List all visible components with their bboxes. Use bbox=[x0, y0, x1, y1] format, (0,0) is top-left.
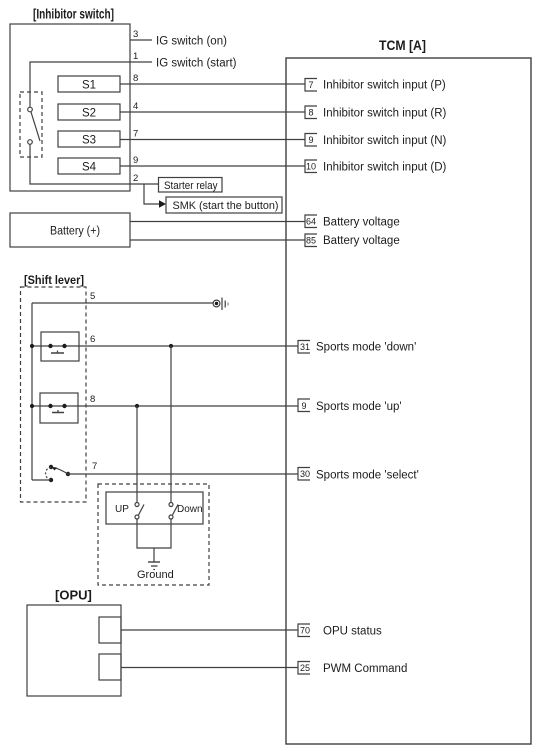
switch S1 box bbox=[58, 76, 120, 92]
svg-text:Sports mode 'down': Sports mode 'down' bbox=[316, 342, 416, 354]
contact dots bbox=[48, 404, 52, 408]
wire S3 to pin 9 bbox=[120, 139, 305, 141]
Down switch contacts bbox=[169, 503, 173, 507]
wire S2 to pin 8 bbox=[120, 111, 305, 113]
wire battery to pin 64 bbox=[130, 221, 305, 223]
starter relay box bbox=[159, 178, 223, 193]
svg-text:[Inhibitor switch]: [Inhibitor switch] bbox=[33, 6, 114, 22]
wire pin 1 (IG switch start) bbox=[30, 62, 152, 107]
wire pin 8b bbox=[32, 405, 298, 407]
svg-text:4: 4 bbox=[133, 101, 138, 112]
switch S2 box bbox=[58, 104, 120, 120]
connector symbol on wire 5 bbox=[213, 300, 220, 307]
svg-text:5: 5 bbox=[90, 291, 95, 302]
svg-text:9: 9 bbox=[302, 401, 307, 411]
pin 30 connector bbox=[298, 468, 310, 481]
OPU sub box 1 bbox=[99, 617, 121, 643]
vertical wire to UP switch bbox=[136, 406, 138, 504]
pin 8 connector bbox=[305, 106, 317, 119]
connector symbol small tick bbox=[227, 303, 229, 306]
svg-text:Battery (+): Battery (+) bbox=[50, 226, 100, 238]
svg-text:Sports mode 'select': Sports mode 'select' bbox=[316, 470, 419, 482]
svg-text:2: 2 bbox=[133, 173, 138, 184]
svg-text:7: 7 bbox=[309, 80, 314, 90]
wire S4 to pin 10 bbox=[120, 165, 305, 167]
svg-text:64: 64 bbox=[306, 217, 316, 227]
svg-text:TCM [A]: TCM [A] bbox=[379, 37, 426, 53]
svg-text:Sports mode 'up': Sports mode 'up' bbox=[316, 401, 402, 413]
junction dot bbox=[30, 344, 34, 348]
wire S1 to pin 7 bbox=[120, 83, 305, 85]
svg-text:7: 7 bbox=[133, 129, 138, 140]
svg-text:31: 31 bbox=[300, 342, 310, 352]
shift lever dashed box bbox=[21, 287, 87, 502]
svg-text:70: 70 bbox=[300, 626, 310, 636]
svg-text:SMK (start the button): SMK (start the button) bbox=[173, 200, 279, 212]
up/down inner box bbox=[106, 492, 203, 524]
svg-text:3: 3 bbox=[133, 29, 138, 40]
svg-text:Battery voltage: Battery voltage bbox=[323, 217, 400, 229]
ground symbol bbox=[148, 561, 160, 563]
svg-text:Inhibitor switch input (D): Inhibitor switch input (D) bbox=[323, 162, 447, 174]
arrowhead into SMK bbox=[159, 200, 166, 208]
svg-text:Ground: Ground bbox=[137, 569, 174, 581]
wire pin 6 bbox=[32, 345, 298, 347]
up/down dashed box bbox=[98, 484, 209, 585]
pin 9 connector bbox=[305, 134, 317, 147]
TCM box bbox=[286, 58, 531, 744]
svg-text:UP: UP bbox=[115, 504, 129, 515]
shift feed vertical wire bbox=[31, 303, 33, 480]
junction dot wire6 to down-switch bbox=[169, 344, 173, 348]
select switch lever bbox=[54, 468, 68, 474]
battery box bbox=[10, 213, 130, 247]
Down switch lever bbox=[173, 505, 179, 516]
UP switch lever bbox=[139, 505, 145, 516]
svg-text:[OPU]: [OPU] bbox=[55, 588, 92, 603]
inhibitor rotary switch dashed box bbox=[20, 92, 42, 157]
svg-text:Inhibitor switch input (R): Inhibitor switch input (R) bbox=[323, 108, 447, 120]
svg-text:[Shift lever]: [Shift lever] bbox=[24, 273, 84, 287]
svg-text:7: 7 bbox=[92, 461, 97, 472]
svg-text:10: 10 bbox=[306, 162, 316, 172]
switch contact bottom bbox=[28, 140, 33, 145]
pin 7 connector bbox=[305, 79, 317, 92]
select switch dashed arc bbox=[46, 467, 51, 480]
wire PWM command bbox=[121, 667, 298, 669]
wire pin 5 bbox=[32, 302, 213, 304]
switch S4 box bbox=[58, 158, 120, 174]
junction dot bbox=[30, 404, 34, 408]
pin 70 connector bbox=[298, 624, 310, 637]
svg-text:8: 8 bbox=[133, 73, 138, 84]
select switch feed bbox=[32, 479, 51, 481]
svg-text:1: 1 bbox=[133, 51, 138, 62]
vertical wire to Down switch bbox=[170, 346, 172, 504]
pin 10 connector bbox=[305, 160, 317, 173]
svg-text:9: 9 bbox=[133, 155, 138, 166]
svg-text:25: 25 bbox=[300, 663, 310, 673]
ground bus wires bbox=[137, 519, 171, 548]
svg-text:IG switch (start): IG switch (start) bbox=[156, 58, 237, 70]
wire OPU status bbox=[121, 629, 298, 631]
pin 64 connector bbox=[305, 215, 317, 228]
UP switch contacts bbox=[135, 503, 139, 507]
pin 9b connector bbox=[298, 399, 310, 412]
svg-text:PWM Command: PWM Command bbox=[323, 663, 407, 675]
svg-text:9: 9 bbox=[309, 135, 314, 145]
junction dot wire8 to up-switch bbox=[135, 404, 139, 408]
switch S3 box bbox=[58, 131, 120, 147]
svg-text:85: 85 bbox=[306, 236, 316, 246]
svg-text:8: 8 bbox=[309, 108, 314, 118]
svg-text:IG switch (on): IG switch (on) bbox=[156, 36, 227, 48]
svg-text:S1: S1 bbox=[82, 80, 96, 92]
wire pin 3 (IG switch on) bbox=[130, 39, 152, 41]
svg-text:Inhibitor switch input (N): Inhibitor switch input (N) bbox=[323, 135, 447, 147]
wire battery to pin 85 bbox=[130, 239, 305, 241]
svg-text:6: 6 bbox=[90, 334, 95, 345]
shift switch (down) box bbox=[41, 332, 79, 361]
OPU box bbox=[27, 605, 121, 696]
SMK box bbox=[166, 197, 282, 213]
svg-text:Starter relay: Starter relay bbox=[164, 180, 218, 192]
svg-text:30: 30 bbox=[300, 469, 310, 479]
switch lever bbox=[31, 112, 40, 141]
svg-text:Battery voltage: Battery voltage bbox=[323, 235, 400, 247]
pin 85 connector bbox=[305, 234, 317, 247]
contact dots bbox=[48, 344, 52, 348]
wire branch to SMK bbox=[144, 184, 159, 204]
svg-text:Inhibitor switch input (P): Inhibitor switch input (P) bbox=[323, 80, 446, 92]
OPU sub box 2 bbox=[99, 654, 121, 680]
switch bridge bbox=[51, 352, 64, 354]
pin 31 connector bbox=[298, 341, 310, 354]
svg-text:OPU status: OPU status bbox=[323, 626, 382, 638]
pin 25 connector bbox=[298, 662, 310, 675]
switch bridge bbox=[52, 412, 64, 414]
svg-text:S4: S4 bbox=[82, 162, 97, 174]
shift switch (up) box bbox=[40, 393, 78, 423]
wire pin 7b bbox=[68, 473, 298, 475]
svg-text:S3: S3 bbox=[82, 135, 96, 147]
inhibitor switch enclosure box bbox=[10, 24, 130, 191]
switch contact top bbox=[28, 107, 33, 112]
wire pin 2 bbox=[30, 145, 158, 185]
svg-text:Down: Down bbox=[177, 504, 203, 515]
select switch contact dots bbox=[49, 478, 53, 482]
svg-text:S2: S2 bbox=[82, 108, 96, 120]
svg-text:8: 8 bbox=[90, 394, 95, 405]
